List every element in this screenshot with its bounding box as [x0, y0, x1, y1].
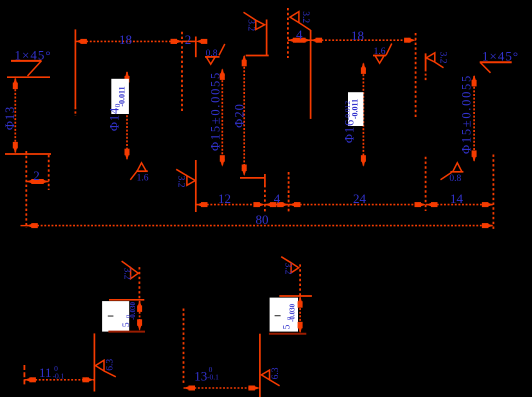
- svg-text:2: 2: [33, 168, 40, 183]
- extension above 3.2 k1: [138, 267, 140, 299]
- svg-text:4: 4: [296, 27, 303, 42]
- dim phi15 left: [209, 68, 225, 166]
- roughness 3.2 k2 apex-right: [281, 257, 299, 275]
- svg-text:Φ14: Φ14: [107, 107, 121, 131]
- extension line left end: [25, 151, 27, 228]
- dim 18 top-left: [75, 32, 182, 47]
- keyway2 bottom edge: [269, 333, 306, 335]
- dim phi14: [107, 71, 129, 160]
- keyway1 bottom edge: [108, 331, 145, 333]
- edge line x310.6: [310, 30, 312, 119]
- extension above 3.2 k2: [299, 264, 301, 295]
- svg-text:3.2: 3.2: [300, 11, 310, 23]
- dim 14: [426, 191, 493, 207]
- top face line left: [7, 76, 50, 78]
- dim 18 top-right: [311, 28, 416, 43]
- extension line x425.6 upper: [425, 53, 427, 80]
- svg-text:80: 80: [256, 212, 269, 227]
- extension x183.5 k2: [183, 309, 185, 384]
- svg-text:11: 11: [39, 365, 52, 380]
- edge line x266.6: [266, 20, 268, 57]
- roughness 6.3 k1 apex-left: [95, 359, 115, 377]
- roughness 3.2 S2 apex-left: [290, 11, 311, 30]
- dim 12: [196, 191, 265, 207]
- keyway2 center dash: [275, 315, 281, 316]
- keyway2 top edge: [279, 295, 312, 297]
- svg-text:Φ16: Φ16: [342, 119, 356, 143]
- dim phi15 right: [460, 74, 477, 162]
- extension line x493.4: [492, 155, 494, 232]
- keyway1 text box: [102, 301, 129, 332]
- dim phi13: [3, 78, 18, 154]
- roughness 1.6 right (apex-down): [373, 44, 392, 64]
- svg-text:-0.030: -0.030: [129, 301, 137, 320]
- extension line x48.7: [48, 155, 50, 190]
- svg-text:Φ15±0.0055: Φ15±0.0055: [460, 74, 474, 154]
- extension line x195.8 lower: [195, 160, 197, 212]
- svg-text:Φ13: Φ13: [3, 106, 17, 130]
- svg-text:18: 18: [351, 28, 364, 43]
- roughness 6.3 k2 apex-left: [261, 367, 281, 386]
- svg-text:6.3: 6.3: [271, 367, 281, 379]
- dim 24: [289, 191, 426, 207]
- extension line x75.4: [74, 29, 76, 107]
- svg-text:14: 14: [450, 191, 464, 206]
- dim 11 k1: [24, 364, 94, 383]
- extension line x195.8 top: [195, 37, 197, 58]
- svg-text:5: 5: [122, 322, 132, 327]
- bottom face line left: [5, 153, 51, 155]
- svg-text:3.2: 3.2: [176, 176, 186, 188]
- keyway2 text box: [270, 298, 298, 332]
- extension line x264.9: [264, 174, 266, 185]
- svg-text:-0.1: -0.1: [53, 371, 65, 380]
- keyway1 end edge: [93, 333, 95, 391]
- svg-text:18: 18: [119, 32, 132, 47]
- chamfer note 1x45 right: [480, 48, 519, 73]
- extension line x287.9 top: [287, 8, 289, 58]
- svg-text:0.8: 0.8: [449, 174, 461, 184]
- extension line x182: [181, 32, 183, 113]
- svg-text:3.2: 3.2: [282, 263, 292, 275]
- dim 4 bottom: [265, 191, 289, 207]
- svg-text:6.3: 6.3: [105, 359, 115, 371]
- svg-text:3.2: 3.2: [121, 268, 131, 280]
- svg-text:-0.011: -0.011: [118, 86, 127, 106]
- roughness 0.8 top: [205, 44, 225, 64]
- roughness 0.8 right (apex-up): [441, 163, 464, 184]
- extension line x425.6 lower: [425, 157, 427, 211]
- svg-text:-0.1: -0.1: [207, 372, 219, 381]
- svg-text:-0.030: -0.030: [288, 303, 296, 322]
- dim phi16: [342, 62, 366, 166]
- svg-text:3.2: 3.2: [245, 19, 255, 31]
- svg-text:1×45°: 1×45°: [482, 48, 519, 63]
- keyway2 end edge: [259, 334, 261, 397]
- dim 5-0.030 k1: [122, 300, 142, 330]
- roughness 3.2 S4 apex-left: [426, 52, 448, 68]
- svg-text:4: 4: [274, 191, 281, 206]
- dim 2 top: [171, 32, 208, 47]
- roughness 3.2 k1 apex-right: [121, 261, 138, 280]
- chamfer note 1x45 left: [11, 48, 52, 77]
- roughness 1.6 left (apex-up): [130, 163, 148, 184]
- roughness 3.2 S3 apex-right: [176, 169, 196, 187]
- svg-text:3.2: 3.2: [438, 52, 448, 64]
- extension line x288.6: [288, 172, 290, 212]
- svg-text:5: 5: [283, 324, 293, 329]
- svg-text:24: 24: [353, 191, 367, 206]
- svg-text:Φ15±0.0055: Φ15±0.0055: [209, 71, 223, 151]
- dim 5-0.030 k2: [283, 296, 303, 333]
- svg-text:Φ20: Φ20: [233, 103, 247, 128]
- svg-text:12: 12: [218, 191, 231, 206]
- phi20 bottom face line: [240, 177, 265, 179]
- svg-text:13: 13: [194, 368, 207, 383]
- svg-text:-0.011: -0.011: [350, 99, 359, 119]
- dim phi20: [233, 55, 247, 176]
- svg-text:1.6: 1.6: [137, 173, 149, 183]
- dim 2 left: [26, 168, 48, 184]
- keyway1 top edge: [109, 299, 144, 301]
- dim 13 k2: [184, 365, 260, 391]
- dim 4 top: [288, 27, 311, 43]
- roughness 3.2 S1 apex-right: [244, 12, 265, 31]
- phi20 top face line: [246, 55, 269, 57]
- svg-text:2: 2: [185, 32, 192, 47]
- extension line x415.6: [415, 33, 417, 118]
- dim 80 overall: [21, 212, 494, 228]
- keyway1 center dash: [108, 315, 114, 316]
- extension x24.4 k1: [23, 365, 25, 385]
